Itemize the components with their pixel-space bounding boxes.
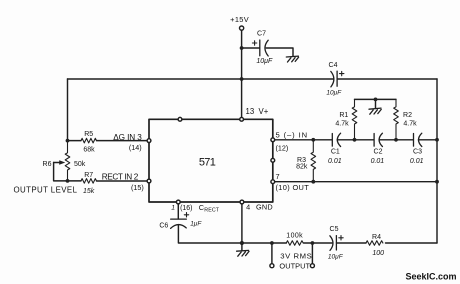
- ground (near C7): [286, 56, 298, 62]
- pin circle RECT IN 2: [147, 179, 151, 183]
- junction output right: [311, 241, 315, 245]
- svg-text:1μF: 1μF: [190, 220, 202, 227]
- terminal +15V: [240, 26, 244, 30]
- pin circle 5: [271, 138, 275, 142]
- svg-text:1: 1: [171, 205, 175, 212]
- resistor R2: [394, 99, 399, 139]
- wire top rail right segment: [337, 78, 437, 80]
- svg-text:3V RMS: 3V RMS: [280, 252, 312, 261]
- svg-text:0.01: 0.01: [371, 158, 385, 165]
- svg-text:R5: R5: [84, 131, 93, 138]
- svg-text:15k: 15k: [83, 188, 95, 195]
- svg-text:R1: R1: [339, 112, 348, 119]
- svg-text:C1: C1: [331, 149, 340, 156]
- svg-text:4: 4: [246, 203, 250, 212]
- svg-text:C7: C7: [257, 31, 266, 38]
- svg-text:(15): (15): [131, 183, 144, 192]
- svg-text:OUTPUT: OUTPUT: [279, 261, 310, 270]
- junction R2 bottom: [394, 138, 398, 142]
- wire C7 branch: [242, 48, 293, 56]
- capacitor C7: [260, 40, 268, 56]
- IC 571 box U1: [149, 119, 273, 202]
- svg-text:R4: R4: [372, 234, 381, 241]
- svg-text:GND: GND: [256, 203, 273, 212]
- svg-text:100k: 100k: [286, 232, 303, 239]
- svg-text:10μF: 10μF: [326, 89, 342, 96]
- svg-text:82k: 82k: [296, 164, 308, 171]
- svg-text:C5: C5: [330, 226, 339, 233]
- svg-text:0.01: 0.01: [328, 158, 342, 165]
- wire +15V vertical: [241, 30, 243, 119]
- junction C3 rail: [435, 138, 439, 142]
- pin circle top unlabeled: [178, 117, 182, 121]
- resistor R7: [81, 179, 96, 184]
- svg-text:C4: C4: [329, 62, 338, 69]
- pin circle 4: [240, 200, 244, 204]
- wire wiper return: [54, 163, 68, 181]
- svg-text:4.7k: 4.7k: [403, 121, 417, 128]
- capacitor C2: [374, 133, 382, 146]
- capacitor C1: [332, 133, 340, 146]
- svg-text:(14): (14): [129, 143, 142, 152]
- capacitor C4: [331, 71, 337, 87]
- svg-text:C6: C6: [159, 223, 168, 230]
- svg-text:OUTPUT LEVEL: OUTPUT LEVEL: [14, 186, 78, 195]
- junction R3 bottom: [311, 180, 315, 184]
- wire R5 to deltaG pin: [68, 140, 148, 142]
- ground (bracket): [369, 108, 381, 114]
- svg-text:+15V: +15V: [230, 15, 249, 24]
- pin circle 13: [240, 117, 244, 121]
- svg-text:C: C: [199, 203, 204, 212]
- wire ground stub bracket: [375, 99, 377, 107]
- svg-text:10μF: 10μF: [256, 58, 273, 65]
- svg-text:50k: 50k: [74, 161, 86, 168]
- wire C6 down and bottom line: [178, 225, 437, 243]
- svg-text:10μF: 10μF: [328, 254, 344, 261]
- resistor R1: [352, 99, 357, 139]
- wire output terminal stub left: [271, 243, 273, 264]
- plus sign C4: [340, 71, 344, 75]
- svg-text:V+: V+: [259, 107, 269, 116]
- pin circle deltaG IN 3: [147, 139, 151, 143]
- wire top rail left segment: [68, 78, 334, 80]
- terminal output left: [270, 264, 274, 268]
- svg-text:13: 13: [246, 107, 255, 116]
- junction C7 tap: [240, 46, 244, 50]
- plus sign C7: [252, 41, 256, 45]
- svg-text:68k: 68k: [83, 146, 95, 153]
- svg-text:5 (–) IN: 5 (–) IN: [276, 130, 309, 139]
- capacitor C3: [414, 133, 422, 146]
- svg-text:R7: R7: [84, 172, 93, 179]
- pin circle 1: [176, 200, 180, 204]
- junction OUT rail: [435, 180, 439, 184]
- terminal output right: [310, 264, 314, 268]
- capacitor C6: [171, 219, 187, 228]
- svg-text:ΔG IN 3: ΔG IN 3: [113, 133, 142, 142]
- pin circle 6: [271, 158, 275, 162]
- wire pin7 OUT line: [275, 181, 437, 183]
- ground (pin4): [237, 250, 249, 256]
- resistor R5: [81, 138, 96, 143]
- svg-text:(10) OUT: (10) OUT: [276, 183, 310, 192]
- svg-text:100: 100: [372, 250, 384, 257]
- svg-text:RECT: RECT: [204, 208, 219, 214]
- svg-text:R2: R2: [403, 112, 412, 119]
- resistor R6 potentiometer: [65, 141, 70, 181]
- svg-text:RECT IN 2: RECT IN 2: [102, 172, 139, 181]
- wire pin5 (-)IN line: [275, 139, 437, 141]
- capacitor C5: [330, 236, 337, 251]
- wire right rail: [436, 79, 438, 243]
- junction +15V rail: [240, 77, 244, 81]
- svg-text:C3: C3: [413, 149, 422, 156]
- wire pin1 to C6: [177, 202, 179, 219]
- svg-text:C2: C2: [374, 149, 383, 156]
- svg-text:(16): (16): [180, 205, 192, 212]
- plus sign C5: [339, 236, 343, 240]
- svg-text:0.01: 0.01: [410, 158, 424, 165]
- svg-text:(12): (12): [276, 143, 289, 152]
- resistor R3: [311, 140, 316, 182]
- junction pin4 gnd: [240, 241, 244, 245]
- svg-text:4.7k: 4.7k: [335, 121, 349, 128]
- junction R6 R7: [66, 179, 70, 183]
- R6 wiper arrow: [54, 162, 60, 164]
- resistor 100k: [286, 241, 303, 246]
- wire bracket over R1 R2: [355, 98, 397, 100]
- svg-text:SeekIC.com: SeekIC.com: [406, 271, 457, 281]
- junction R1 bottom: [353, 138, 357, 142]
- junction bracket ground: [374, 98, 378, 102]
- junction R5 R6: [66, 139, 70, 143]
- pin circle 7: [271, 180, 275, 184]
- junction output left: [270, 241, 274, 245]
- plus sign C6: [184, 213, 188, 217]
- wire R7 to RECT pin: [68, 180, 148, 182]
- wire output terminal stub right: [311, 243, 313, 264]
- svg-text:571: 571: [199, 156, 216, 168]
- svg-text:7: 7: [276, 172, 280, 181]
- wire pin4 GND stub: [241, 202, 243, 250]
- svg-text:R6: R6: [43, 161, 52, 168]
- resistor R4: [366, 241, 383, 246]
- wire left vertical: [67, 79, 69, 141]
- junction R3 top: [311, 138, 315, 142]
